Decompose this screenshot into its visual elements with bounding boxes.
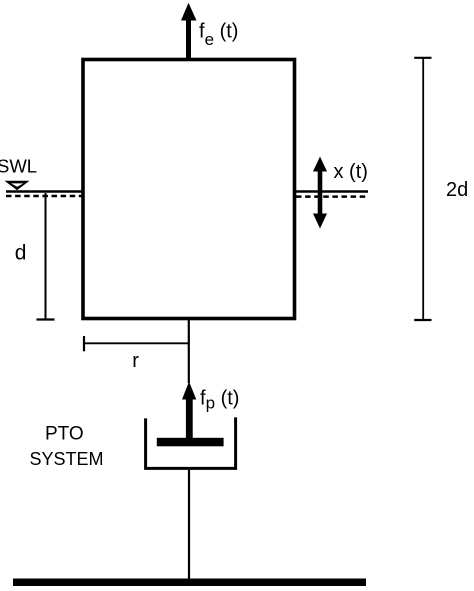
svg-text:SWL: SWL bbox=[0, 155, 37, 176]
water line solid left bbox=[6, 190, 82, 193]
height dimension line 2d bbox=[414, 58, 431, 320]
seabed (ground bar) bbox=[13, 579, 366, 587]
water line solid right bbox=[296, 190, 368, 193]
connecting rod lower (PTO to seabed) bbox=[188, 470, 190, 579]
PTO damper cylinder (cup) bbox=[146, 417, 236, 468]
excitation force arrow f_e(t) bbox=[181, 3, 197, 60]
buoy body (floating cylinder rectangle) bbox=[83, 60, 295, 319]
svg-text:fe (t): fe (t) bbox=[199, 21, 238, 50]
water line dashed right bbox=[296, 195, 368, 198]
svg-text:2d: 2d bbox=[446, 179, 468, 201]
displacement double arrow x(t) bbox=[313, 157, 327, 229]
svg-text:fp (t): fp (t) bbox=[200, 387, 239, 412]
connecting rod upper (buoy to PTO) bbox=[188, 320, 190, 383]
still water level marker (triangle) bbox=[5, 181, 30, 191]
svg-text:SYSTEM: SYSTEM bbox=[30, 449, 104, 469]
water line dashed left bbox=[6, 195, 82, 198]
svg-text:PTO: PTO bbox=[45, 423, 84, 444]
svg-text:d: d bbox=[15, 242, 27, 265]
PTO piston plate bbox=[157, 438, 224, 447]
PTO force arrow f_p(t) bbox=[182, 382, 196, 439]
svg-text:x (t): x (t) bbox=[334, 161, 368, 183]
svg-text:r: r bbox=[132, 350, 139, 372]
draft dimension line d bbox=[37, 193, 55, 320]
radius dimension line r bbox=[84, 336, 189, 351]
